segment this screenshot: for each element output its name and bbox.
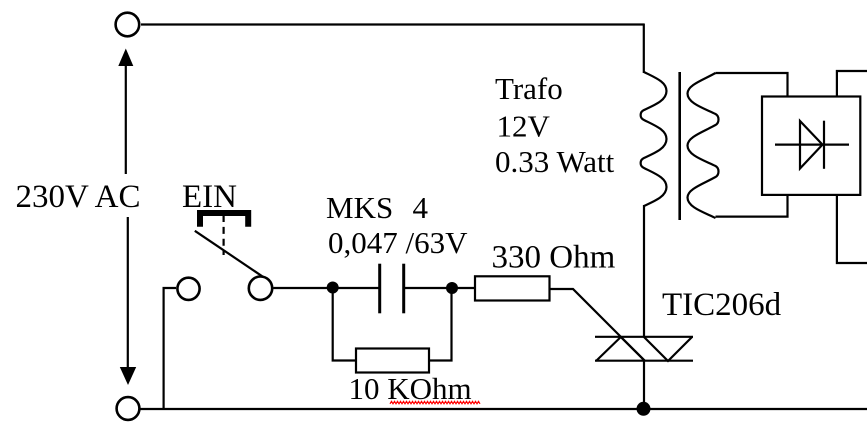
triac Q1 top bar [595, 336, 693, 338]
switch S1 actuator bracket [200, 213, 248, 227]
rectifier B1 diode horizontal line [775, 144, 849, 146]
svg-text:0.33 Watt: 0.33 Watt [495, 144, 615, 179]
wire capacitor to node B [404, 287, 475, 289]
arrow up (230V AC top arrowhead) [118, 49, 133, 67]
rectifier B1 diode triangle [800, 121, 823, 169]
triac Q1 bottom bar [595, 360, 693, 362]
transformer T1 core [678, 72, 681, 220]
wire node A down to resistor R2 [333, 288, 356, 361]
transformer T1 secondary winding [688, 73, 719, 218]
svg-text:330 Ohm: 330 Ohm [492, 240, 616, 276]
wire secondary top to rectifier [716, 73, 788, 97]
arrow shaft top segment [125, 64, 127, 174]
svg-text:0,047 /63V: 0,047 /63V [328, 225, 468, 260]
capacitor C1 left plate [378, 264, 381, 314]
node A junction dot [327, 282, 339, 294]
wire resistor R2 to node B [429, 288, 452, 361]
terminal circle bottom-left [117, 397, 140, 420]
resistor R2 10 KOhm box [356, 349, 429, 373]
svg-text:12V: 12V [497, 109, 551, 144]
label 230V AC [8, 175, 142, 214]
rectifier B1 diode cathode bar [823, 121, 825, 169]
transformer T1 primary winding [641, 72, 667, 206]
wire bottom horizontal [141, 408, 867, 410]
arrow down (230V AC bottom arrowhead) [120, 367, 136, 385]
switch S1 lever [195, 231, 268, 281]
switch S1 left contact circle [177, 278, 199, 300]
arrow shaft bottom segment [127, 217, 129, 369]
wire rectifier DC minus output [837, 195, 867, 263]
svg-text:TIC206d: TIC206d [662, 287, 782, 323]
wire right contact to node A [273, 287, 380, 289]
wire top horizontal [141, 23, 644, 25]
wire vertical primary coil to triac top [643, 205, 645, 338]
resistor R1 330 Ohm box [475, 276, 550, 300]
svg-text:10 KOhm: 10 KOhm [349, 371, 472, 406]
wire from left contact to down-left [164, 288, 176, 409]
wire resistor R1 to gate diagonal [550, 289, 646, 361]
bottom junction dot node C [637, 402, 651, 416]
triac Q1 right triangle [644, 337, 692, 361]
switch S1 dashed link [223, 215, 225, 255]
svg-text:Trafo: Trafo [495, 71, 563, 106]
capacitor C1 right plate [402, 264, 405, 314]
svg-text:MKS: MKS [326, 190, 393, 225]
spellcheck squiggle under KOhm [390, 401, 480, 403]
rectifier B1 box [762, 97, 860, 195]
wire rectifier DC plus output [837, 71, 867, 97]
wire triac bottom to junction node C [643, 360, 645, 409]
node B junction dot [446, 282, 458, 294]
wire vertical from top wire to transformer primary [643, 24, 645, 74]
triac Q1 left triangle [596, 337, 645, 361]
switch S1 right contact circle [249, 277, 272, 300]
svg-text:EIN: EIN [182, 179, 237, 215]
svg-text:4: 4 [413, 190, 429, 225]
svg-text:230V AC: 230V AC [16, 179, 141, 215]
terminal circle top-left [116, 13, 140, 37]
wire secondary bottom to rectifier [716, 194, 788, 217]
